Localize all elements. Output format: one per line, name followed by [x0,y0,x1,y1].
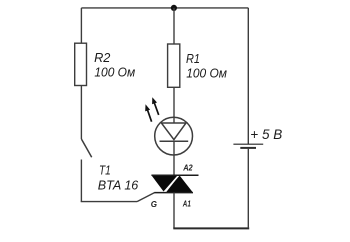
battery positive plate [233,143,263,145]
label R1 100 Ом [186,51,227,80]
svg-text:100 Ом: 100 Ом [186,66,227,81]
label T1 BTA 16 [98,162,139,192]
svg-text:BTA 16: BTA 16 [98,178,139,193]
wire junction to R1 [173,8,175,44]
resistor R2 [75,43,87,85]
wire R1 to LED [173,87,175,123]
switch blade [81,139,91,157]
wire switch lower contact down [80,160,82,202]
label A1 [182,200,191,209]
node junction top [171,5,177,11]
resistor R1 [168,44,180,87]
triac T1 bottom line A1 [154,192,193,194]
wire right vertical top [247,8,249,144]
wire R2 to switch [80,86,82,140]
triac left triangle [151,175,178,192]
LED triangle anode [161,123,186,140]
wire triac to bottom [173,193,175,229]
wire bottom horizontal [173,227,249,229]
wire bottom-left horizontal to gate [81,201,137,203]
triac right triangle [166,175,193,192]
wire left vertical to R2 [80,8,82,43]
svg-text:100 Ом: 100 Ом [94,65,135,80]
label + 5 В [250,127,282,142]
svg-text:G: G [151,200,157,209]
label G [151,200,157,209]
wire top horizontal [81,7,248,9]
svg-text:A2: A2 [182,164,193,173]
LED circle [155,117,193,155]
svg-text:+ 5 В: + 5 В [250,127,282,142]
label R2 100 Ом [94,50,135,80]
battery negative plate [240,147,256,149]
svg-text:R2: R2 [94,50,111,65]
triac white slash [163,174,180,194]
wire gate diagonal [137,193,155,202]
svg-text:T1: T1 [99,162,111,177]
label A2 [182,164,193,173]
svg-text:R1: R1 [186,51,200,66]
wire right vertical bottom [247,148,249,229]
LED emission arrow 2 [152,97,159,115]
wire LED to triac [173,141,175,175]
LED emission arrow 1 [145,104,151,121]
triac T1 top line A2 [151,174,198,176]
svg-text:A1: A1 [182,200,191,209]
LED cathode bar [160,140,189,142]
